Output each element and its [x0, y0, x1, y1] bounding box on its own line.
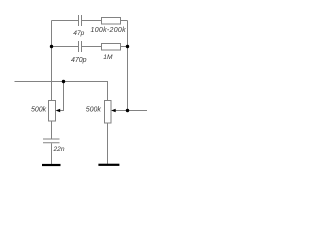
svg-text:22n: 22n: [53, 146, 65, 153]
svg-text:1M: 1M: [103, 54, 113, 61]
svg-text:47p: 47p: [73, 30, 84, 37]
svg-text:500k: 500k: [86, 107, 102, 114]
svg-text:500k: 500k: [31, 107, 47, 114]
svg-text:100k-200k: 100k-200k: [91, 27, 127, 34]
svg-text:470p: 470p: [71, 57, 87, 64]
